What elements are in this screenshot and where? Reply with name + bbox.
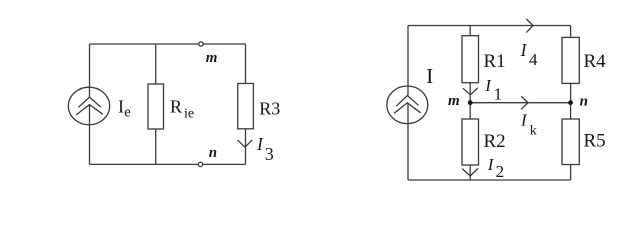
wire: middle branch lower bbox=[155, 129, 157, 164]
svg-text:1: 1 bbox=[494, 85, 503, 104]
current arrow Ik on middle wire bbox=[521, 96, 528, 109]
resistor R5: box bbox=[562, 119, 579, 165]
svg-text:I: I bbox=[520, 111, 528, 130]
svg-text:4: 4 bbox=[529, 50, 538, 69]
current source Ie: circle bbox=[68, 87, 109, 125]
resistor R3: box bbox=[238, 84, 254, 129]
wire: R2 to bottom bbox=[469, 165, 471, 180]
svg-text:I: I bbox=[256, 134, 264, 154]
wire: R4 to node n bbox=[570, 83, 572, 102]
wire: node m to R2 bbox=[469, 103, 471, 119]
svg-text:I: I bbox=[520, 40, 528, 60]
svg-text:k: k bbox=[530, 124, 537, 139]
node n (open terminal) bbox=[198, 162, 202, 166]
node m (open terminal) bbox=[199, 42, 203, 46]
svg-text:3: 3 bbox=[265, 144, 274, 164]
svg-text:I: I bbox=[487, 155, 495, 174]
wire: left edge lower (from source) bbox=[89, 105, 91, 165]
svg-text:R5: R5 bbox=[584, 131, 606, 152]
node m junction dot bbox=[468, 100, 473, 105]
svg-text:I: I bbox=[484, 76, 492, 95]
resistor R4: box bbox=[562, 37, 579, 83]
wire: right circuit bottom bbox=[408, 179, 571, 181]
current source Ie: lower chevron bbox=[76, 105, 103, 115]
wire: middle m-n link bbox=[470, 102, 570, 104]
resistor R1: box bbox=[462, 36, 479, 83]
current arrow I2 bbox=[462, 168, 478, 176]
node n junction dot bbox=[568, 100, 573, 105]
wire: right edge top to R4 bbox=[570, 26, 572, 38]
svg-text:n: n bbox=[580, 94, 588, 110]
wire: right circuit top bbox=[408, 25, 571, 27]
svg-text:R3: R3 bbox=[259, 98, 280, 118]
wire: right edge lower bbox=[245, 129, 247, 165]
svg-text:R2: R2 bbox=[484, 131, 506, 152]
wire: R1 to node m bbox=[469, 83, 471, 103]
wire: left edge upper (to source) bbox=[89, 44, 91, 97]
resistor R2: box bbox=[462, 119, 479, 165]
resistor Rie: box bbox=[148, 84, 164, 129]
wire: left circuit bottom bbox=[90, 163, 246, 165]
svg-text:R1: R1 bbox=[484, 51, 506, 72]
wire: left edge upper (to source) bbox=[407, 26, 409, 96]
current arrow on top wire bbox=[526, 19, 533, 33]
current source I: upper chevron bbox=[396, 96, 418, 107]
wire: left circuit top bbox=[90, 43, 246, 45]
current arrow I3 bbox=[238, 140, 253, 147]
current arrow I1 bbox=[463, 88, 478, 95]
current source I: lower chevron bbox=[394, 103, 421, 114]
svg-text:m: m bbox=[206, 50, 218, 66]
svg-text:I: I bbox=[426, 64, 433, 88]
svg-text:Rie: Rie bbox=[170, 97, 194, 122]
svg-text:Ie: Ie bbox=[118, 97, 131, 121]
wire: R5 to bottom bbox=[570, 165, 572, 181]
wire: middle branch upper bbox=[155, 44, 157, 84]
svg-text:2: 2 bbox=[496, 162, 505, 181]
svg-text:m: m bbox=[448, 93, 460, 109]
current source Ie: upper chevron bbox=[78, 97, 100, 107]
wire: right edge upper bbox=[245, 44, 247, 84]
wire: left edge lower (from source) bbox=[407, 103, 409, 180]
current source I: circle bbox=[387, 86, 428, 124]
wire: node n to R5 bbox=[570, 103, 572, 119]
wire: R1 branch top bbox=[469, 26, 471, 36]
svg-text:R4: R4 bbox=[584, 51, 607, 72]
svg-text:n: n bbox=[209, 145, 217, 161]
